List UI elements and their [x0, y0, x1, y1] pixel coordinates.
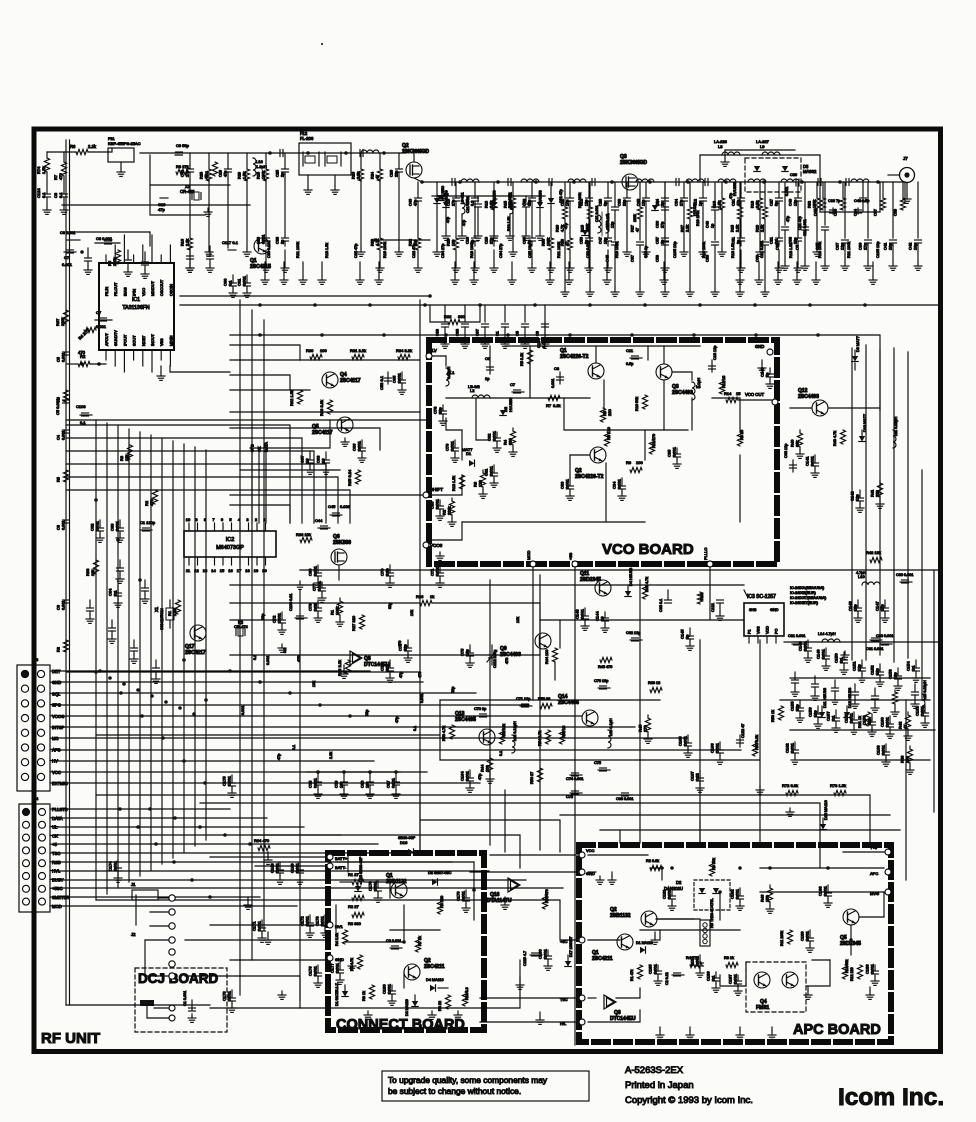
capacitor C83 0.001 [880, 643, 892, 645]
resistor R [814, 198, 819, 210]
resistor R [840, 198, 845, 210]
capacitor C [484, 305, 486, 322]
diode D [434, 198, 440, 204]
diode D HVU350 [443, 202, 449, 208]
svg-text:R9 1k: R9 1k [362, 991, 366, 1001]
capacitor C167 [699, 770, 701, 778]
inductor L9 LA-227 [762, 152, 780, 155]
svg-text:C25: C25 [276, 170, 280, 177]
wire horizontal bus [66, 477, 338, 523]
resistor R [263, 169, 268, 181]
svg-text:HVU350: HVU350 [539, 190, 543, 204]
capacitor C79 [454, 440, 456, 448]
APC BOARD dashed box [579, 845, 891, 1042]
svg-text:10p: 10p [913, 243, 918, 250]
svg-text:BATT-: BATT- [335, 865, 347, 870]
diode D1 HVU350 [437, 195, 443, 201]
capacitor C [144, 580, 146, 588]
svg-text:L15 0.82µH: L15 0.82µH [923, 680, 927, 700]
capacitor C [133, 640, 135, 648]
capacitor C [824, 182, 826, 225]
svg-text:0.001: 0.001 [387, 983, 392, 994]
wire [862, 182, 864, 198]
capacitor C [662, 241, 669, 243]
wire J3 line [58, 760, 374, 762]
wire J3 line [58, 715, 582, 717]
svg-text:12p: 12p [528, 200, 532, 206]
svg-text:100: 100 [485, 765, 490, 772]
svg-text:SHIFT: SHIFT [430, 487, 443, 492]
svg-text:C8: C8 [57, 525, 61, 530]
wire column drop [455, 182, 457, 198]
ground [549, 262, 551, 276]
svg-text:C39: C39 [894, 209, 898, 216]
svg-text:0.001: 0.001 [683, 735, 688, 746]
wire [480, 997, 579, 999]
svg-text:47p: 47p [414, 200, 418, 206]
MOD terminal [530, 561, 536, 567]
capacitor C178 [231, 990, 233, 998]
capacitor series [704, 179, 706, 186]
diode D11 HSU88 [821, 706, 823, 712]
svg-text:C105 10p: C105 10p [876, 242, 880, 258]
terminal H/L [579, 1019, 585, 1025]
svg-text:0.001: 0.001 [580, 608, 585, 619]
resistor R35 0.24 [355, 470, 360, 484]
capacitor C81 [493, 465, 495, 473]
svg-text:C9 56p: C9 56p [176, 143, 190, 148]
wire J4 line [58, 870, 489, 872]
svg-text:C35 10p: C35 10p [528, 244, 532, 258]
inductor L [568, 179, 586, 182]
resistor R9 1k [369, 985, 374, 999]
capacitor C62 12p [630, 639, 642, 641]
capacitor C184 [699, 955, 701, 963]
wire [589, 182, 591, 207]
svg-text:C1: C1 [496, 331, 500, 336]
transistor Q3 2SC4403 [656, 364, 672, 380]
svg-text:+5C: +5C [560, 939, 568, 944]
svg-text:R7 1k: R7 1k [418, 936, 422, 946]
wire right mid horizontals [784, 641, 938, 643]
svg-text:C44: C44 [854, 209, 858, 216]
wire R16 line [375, 239, 430, 241]
wire [550, 208, 552, 238]
wire [227, 179, 229, 248]
svg-text:0.001: 0.001 [313, 565, 318, 576]
terminal T5C [579, 995, 585, 1001]
svg-text:47: 47 [903, 724, 908, 729]
capacitor C74 0.001 [570, 774, 582, 776]
ground [664, 264, 666, 268]
resistor R55 15 [559, 730, 564, 744]
capacitor C [612, 206, 619, 208]
ground [714, 288, 716, 292]
resistor R64 470 [258, 845, 270, 850]
svg-text:R21 100k: R21 100k [557, 242, 561, 258]
wire [455, 250, 457, 264]
resistor R49 4.7k [840, 430, 845, 444]
resistor R6 220 [437, 900, 442, 914]
ground [778, 264, 780, 268]
buffer Q16 DTA114TU [508, 878, 520, 892]
svg-text:12p: 12p [855, 494, 860, 501]
svg-text:0.001: 0.001 [397, 372, 402, 383]
svg-text:BIAS: BIAS [123, 287, 127, 296]
svg-text:C9: C9 [536, 331, 540, 336]
svg-text:C28 1p: C28 1p [644, 246, 648, 258]
svg-text:R18 1.5k: R18 1.5k [325, 243, 329, 258]
svg-text:R33 3.3k: R33 3.3k [319, 400, 324, 416]
capacitor C185 [657, 965, 659, 971]
wire [639, 182, 641, 207]
junction [420, 180, 424, 184]
resistor R2 470 [152, 490, 157, 504]
wire [398, 179, 400, 248]
svg-text:R20: R20 [756, 225, 760, 232]
wire [619, 830, 621, 843]
op-amp IC1 TA31136FN [99, 263, 174, 350]
resistor R68 10k [93, 560, 98, 574]
wire [230, 411, 420, 413]
svg-text:47: 47 [376, 175, 380, 179]
svg-text:C11: C11 [626, 348, 634, 353]
svg-text:47: 47 [205, 175, 209, 179]
wire J4 line [58, 852, 415, 854]
svg-text:To upgrade quality, some compo: To upgrade quality, some components may [388, 1075, 548, 1085]
LV terminal [426, 353, 432, 359]
svg-text:C27: C27 [770, 199, 774, 206]
svg-text:0.1µH: 0.1µH [697, 378, 701, 388]
resistor R43 [909, 746, 911, 749]
svg-text:D9 MA77: D9 MA77 [856, 336, 860, 352]
junction [863, 303, 867, 307]
svg-text:0.001: 0.001 [870, 963, 875, 974]
wire bus y800 [200, 803, 820, 845]
svg-text:0.001: 0.001 [340, 504, 351, 509]
wire vertical mid [759, 640, 761, 843]
svg-text:0.001: 0.001 [241, 705, 245, 715]
capacitor C104b [544, 322, 546, 340]
ground [689, 288, 691, 292]
svg-text:LA-226: LA-226 [714, 139, 728, 144]
junction [172, 860, 176, 864]
svg-text:R18: R18 [751, 201, 755, 208]
ground [477, 232, 479, 236]
svg-text:C19: C19 [219, 170, 223, 177]
inductor L [781, 179, 799, 182]
resistor R36 10k [300, 537, 312, 542]
wire [531, 208, 533, 238]
capacitor C71 [439, 565, 441, 573]
svg-text:D16: D16 [400, 840, 408, 845]
svg-text:C4: C4 [57, 435, 61, 440]
junction [136, 688, 140, 692]
wire column drop [797, 182, 799, 198]
svg-text:R8 22: R8 22 [438, 1001, 442, 1011]
capacitor C [89, 600, 91, 608]
svg-text:10: 10 [600, 616, 605, 621]
svg-text:C93: C93 [456, 329, 460, 336]
svg-text:330: 330 [508, 438, 513, 445]
capacitor C60 0.001 [900, 581, 912, 583]
resistor R57 3.3k [752, 742, 757, 756]
terminal VCC [579, 852, 585, 858]
capacitor C98 0.001 [620, 794, 632, 796]
crystal X2 CR-468 [191, 193, 193, 200]
inductor L2 LB-3/2 [472, 395, 490, 398]
svg-text:C85: C85 [775, 242, 780, 250]
ground [302, 262, 304, 276]
svg-text:2SC4403: 2SC4403 [798, 394, 819, 400]
wire PLLLO drop from VCO [709, 567, 711, 620]
resistor R33 3.3k [327, 400, 332, 414]
wire [446, 418, 462, 430]
svg-text:D15 SB30-03P: D15 SB30-03P [359, 856, 363, 882]
svg-text:0.1: 0.1 [471, 201, 475, 206]
capacitor C182 [739, 888, 741, 896]
wire J4 line [58, 817, 267, 819]
wire BATT lines [210, 856, 326, 858]
resistor R4 27k [690, 962, 702, 967]
transistor Q5 2SD2345 [843, 909, 859, 925]
svg-text:D11 HSU88: D11 HSU88 [823, 688, 827, 708]
diode D1 02CZ5.1-Z [344, 985, 346, 991]
svg-text:R3 15: R3 15 [740, 430, 744, 440]
svg-text:R13: R13 [485, 201, 489, 208]
wire [445, 196, 447, 202]
junction [108, 676, 112, 680]
svg-text:4.7µH: 4.7µH [856, 571, 866, 575]
capacitor C [87, 248, 89, 258]
svg-text:AFOUT: AFOUT [105, 332, 109, 346]
capacitor series [548, 179, 550, 186]
svg-text:C76 18p: C76 18p [594, 679, 608, 683]
svg-text:10p: 10p [893, 672, 898, 679]
wire STB [251, 450, 253, 523]
svg-text:R26: R26 [556, 225, 560, 232]
diode D3 HVU350 [582, 230, 588, 236]
inductor L3 0.1uH [692, 382, 695, 400]
svg-text:10: 10 [321, 458, 326, 463]
resistor R56 27 [537, 768, 542, 782]
svg-text:0.1: 0.1 [839, 657, 844, 663]
capacitor C [472, 237, 479, 239]
junction [698, 303, 702, 307]
svg-text:C34 27p: C34 27p [441, 244, 445, 258]
terminal T+5 [885, 849, 891, 855]
svg-text:C45: C45 [181, 170, 185, 177]
capacitor C179 [465, 890, 467, 898]
SHIFT terminal [423, 492, 429, 498]
svg-text:C13 12p: C13 12p [713, 346, 717, 360]
svg-text:L12 0.12µH: L12 0.12µH [513, 721, 517, 741]
wire vertical mid [699, 640, 701, 843]
CONNECT BOARD dashed box [328, 853, 484, 1030]
wire [559, 620, 561, 648]
ground [771, 1027, 773, 1031]
svg-text:DATA: DATA [264, 442, 269, 452]
svg-text:C45: C45 [328, 504, 336, 509]
svg-text:FILIN: FILIN [105, 286, 109, 296]
resistor R4 1.8k [342, 930, 347, 944]
capacitor C8 0.001 [559, 372, 561, 384]
wire [564, 240, 566, 288]
ground [379, 264, 381, 268]
capacitor C [63, 351, 70, 353]
diode D3 MA110 [414, 995, 416, 1001]
capacitor C11 0.5p [630, 357, 642, 359]
inductor L [361, 150, 379, 153]
capacitor C151 [861, 660, 863, 668]
junction [258, 333, 262, 337]
capacitor C44 0.001 [318, 527, 330, 529]
ground [797, 264, 799, 268]
svg-text:MA862: MA862 [803, 169, 817, 174]
capacitor series [359, 150, 361, 157]
svg-text:220k: 220k [112, 257, 117, 266]
svg-text:OSCIN: OSCIN [169, 284, 173, 296]
capacitor C [795, 197, 802, 199]
wire column drop [436, 182, 438, 198]
capacitor C [472, 197, 479, 199]
svg-text:R9 27k: R9 27k [176, 164, 189, 169]
junction [610, 180, 614, 184]
wire [525, 196, 527, 202]
svg-text:2SC4211: 2SC4211 [424, 964, 445, 970]
junction [762, 180, 766, 184]
svg-text:C2 0.22: C2 0.22 [665, 972, 669, 985]
capacitor C [567, 197, 574, 199]
wire [574, 1040, 576, 1045]
ground [493, 232, 495, 236]
resonator R3 TN20-3U473L APC [700, 920, 710, 946]
ground [664, 288, 666, 292]
capacitor C45 0.001 [330, 514, 342, 516]
svg-text:D2 SB07-03C: D2 SB07-03C [428, 871, 452, 875]
svg-text:47p: 47p [786, 216, 790, 222]
inductor L [521, 179, 539, 182]
svg-text:DTA114TU: DTA114TU [487, 898, 512, 904]
wire column drop [550, 182, 552, 198]
svg-text:C63 0.1: C63 0.1 [659, 599, 663, 612]
svg-text:C30 0.001: C30 0.001 [586, 240, 590, 258]
+5S terminal [572, 561, 578, 567]
wire [493, 196, 495, 202]
capacitor C [524, 305, 526, 322]
svg-text:C22 47p: C22 47p [798, 216, 802, 230]
resistor R [510, 198, 515, 210]
resistor R7 [61, 162, 66, 176]
wire J4 line [58, 834, 341, 836]
svg-text:C21 0.001: C21 0.001 [606, 213, 610, 230]
svg-text:3p: 3p [685, 634, 690, 639]
ground [509, 232, 511, 236]
wire vertical right [921, 470, 923, 700]
svg-text:C1 120p: C1 120p [140, 520, 156, 525]
wire [436, 208, 438, 248]
svg-text:R5 4.7k: R5 4.7k [350, 958, 354, 971]
svg-text:VDO: VDO [142, 288, 146, 296]
svg-text:100: 100 [452, 240, 456, 246]
wire [689, 182, 691, 207]
capacitor C76 18p [598, 687, 610, 689]
svg-text:C38: C38 [276, 237, 280, 244]
svg-text:C103: C103 [76, 404, 86, 409]
ground [626, 248, 628, 252]
junction [478, 303, 482, 307]
svg-text:D1 02CZ5.1-Z: D1 02CZ5.1-Z [335, 982, 339, 1006]
resistor R3 15 [737, 432, 742, 446]
svg-text:R6: R6 [70, 144, 76, 149]
resistor R42 12k [870, 557, 882, 562]
svg-text:0.001: 0.001 [275, 862, 280, 873]
wire [569, 208, 571, 238]
capacitor C [681, 197, 688, 199]
wire [480, 1021, 579, 1023]
svg-text:0.001: 0.001 [733, 973, 738, 984]
diode D4 MA110 [430, 985, 436, 991]
svg-text:R2 27: R2 27 [348, 904, 359, 909]
wire upper-left rail [62, 204, 250, 206]
ground [639, 288, 641, 292]
svg-text:MIXOUT: MIXOUT [151, 281, 155, 296]
wire vertical bus [183, 444, 185, 852]
wire column drop [246, 153, 248, 169]
svg-text:82p: 82p [385, 664, 390, 671]
capacitor C5 [65, 395, 67, 405]
capacitor C [776, 237, 783, 239]
wire column drop [588, 182, 590, 198]
capacitor C79 [343, 772, 345, 782]
wire mid horizontals misc [300, 359, 420, 361]
filter F12 FL-206 [299, 143, 351, 175]
transistor Q1 2SC4211 [617, 934, 633, 950]
capacitor C85 [676, 448, 678, 454]
svg-text:0.001: 0.001 [262, 234, 266, 244]
svg-text:15p: 15p [880, 604, 885, 611]
svg-text:2SC4403: 2SC4403 [672, 390, 693, 396]
wire [284, 250, 286, 264]
svg-text:100: 100 [636, 460, 643, 465]
wire J3 line [58, 692, 476, 694]
capacitor C [762, 241, 769, 243]
svg-text:R35 0.24: R35 0.24 [347, 469, 352, 486]
svg-text:DTC144EU: DTC144EU [610, 1016, 636, 1022]
svg-text:LA-227: LA-227 [756, 139, 770, 144]
svg-text:C22 47p: C22 47p [412, 244, 416, 258]
svg-text:0.001: 0.001 [672, 446, 677, 457]
svg-text:2SD2345: 2SD2345 [580, 577, 601, 583]
wire [588, 208, 590, 238]
svg-text:0.001: 0.001 [62, 262, 73, 267]
svg-text:Printed in Japan: Printed in Japan [625, 1080, 694, 1091]
svg-text:C89: C89 [436, 329, 440, 336]
ground [815, 262, 817, 276]
svg-text:L11 0.82µH: L11 0.82µH [894, 416, 898, 436]
svg-text:0.001: 0.001 [115, 520, 120, 531]
capacitor C [814, 676, 816, 684]
wire vertical bus [205, 450, 207, 840]
capacitor C [586, 197, 593, 199]
resistor R3 [482, 470, 484, 473]
wire [470, 871, 579, 873]
ground [796, 262, 798, 276]
svg-text:C36: C36 [656, 221, 660, 228]
svg-text:0.001: 0.001 [565, 478, 570, 489]
junction [692, 333, 696, 337]
capacitor C78 [317, 772, 319, 782]
